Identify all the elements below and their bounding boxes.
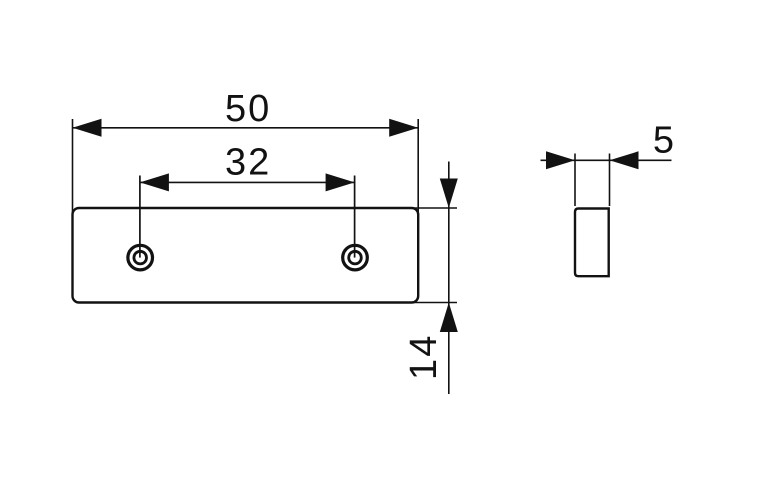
svg-text:5: 5 (653, 120, 674, 162)
dimension 14: upper arrowhead pointing down (440, 179, 458, 209)
svg-text:32: 32 (225, 142, 271, 184)
hole right: inner circle (349, 251, 362, 264)
dimension 14: dimension line (448, 162, 450, 395)
dimension 50: left extension line (72, 119, 74, 218)
dimension 5: left arrowhead pointing right (546, 151, 575, 169)
svg-text:14: 14 (403, 334, 445, 380)
part outline: front view plate (73, 208, 419, 303)
hole left: outer circle (128, 245, 153, 270)
dimension 32: left arrowhead (140, 173, 169, 191)
dimension 32: right extension line (354, 176, 356, 258)
svg-text:50: 50 (225, 88, 271, 130)
hole right: outer circle (343, 245, 368, 270)
dimension 32: left extension line (139, 176, 141, 258)
hole left: inner circle (134, 251, 147, 264)
dimension 5: right arrowhead pointing left (610, 151, 639, 169)
dimension 14: lower arrowhead pointing up (440, 303, 458, 333)
dimension 50: right arrowhead (389, 119, 418, 137)
dimension 5: left extension line (574, 154, 576, 207)
part outline: side view section (575, 209, 609, 277)
dimension 14: top extension tick (409, 207, 457, 209)
dimension 50: left arrowhead (73, 119, 102, 137)
dimension 5: dimension line (541, 159, 672, 161)
dimension 50: right extension line (417, 119, 419, 218)
dimension 5: right extension line (609, 154, 611, 207)
dimension 50: dimension line (73, 127, 419, 129)
dimension 14: bottom extension tick (409, 302, 457, 304)
dimension 32: right arrowhead (326, 173, 355, 191)
dimension 32: dimension line (140, 181, 355, 183)
